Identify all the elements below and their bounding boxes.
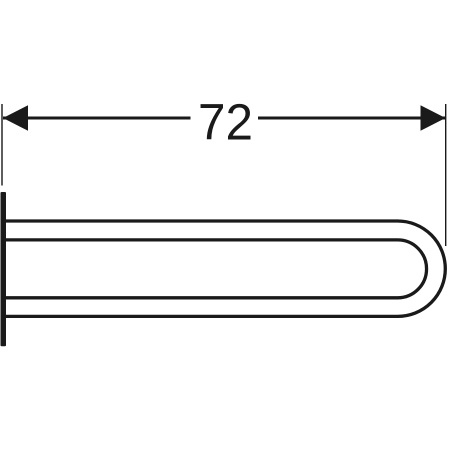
svg-text:72: 72 xyxy=(198,93,253,150)
